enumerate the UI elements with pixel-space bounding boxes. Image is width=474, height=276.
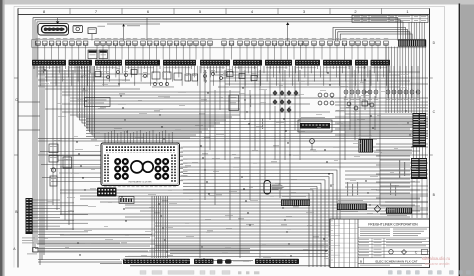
wire center V11: [254, 66, 256, 150]
fuse F1: [36, 38, 41, 45]
connector grd hatched C: [386, 208, 412, 216]
wire fuse F20 drop: [169, 45, 171, 59]
wire fuse F46 drop: [357, 45, 359, 59]
wire right H21: [380, 177, 428, 179]
sheet top edge line: [14, 5, 445, 7]
wire right lower H1: [345, 170, 410, 172]
wire cross H7: [86, 136, 428, 138]
wire bottom H5: [100, 201, 428, 203]
fuse F25: [201, 38, 206, 45]
wire cross H5: [86, 130, 428, 132]
wire label mid H8: [199, 112, 205, 115]
wire bottom H12: [155, 222, 400, 224]
fuse F8: [83, 38, 88, 45]
wire fuse F41 drop: [321, 45, 323, 59]
wire bottom H15: [155, 231, 428, 233]
fuse F13: [120, 38, 125, 45]
wire right H11: [345, 131, 428, 133]
title block revision column: [330, 219, 430, 268]
wire left bus V10: [72, 70, 74, 230]
svg-text:запчасти онлайн: запчасти онлайн: [425, 262, 450, 266]
wire mid H1: [62, 91, 240, 93]
wire mid H13: [38, 154, 428, 156]
wire mid H16: [60, 166, 420, 168]
wire band drop curtain: [34, 66, 390, 86]
wire bottom extra H1: [155, 245, 328, 247]
wire left bus V6: [56, 66, 58, 210]
wire label mid H10: [91, 138, 97, 141]
fuse F31: [252, 38, 257, 45]
wire bottom H2: [60, 192, 410, 194]
wire fuse F21 drop: [176, 45, 178, 59]
wire top loop outer: [33, 18, 398, 252]
fuse F40: [312, 38, 317, 45]
diode pack diamonds: [273, 90, 298, 112]
connector bulkhead C7: [233, 60, 262, 66]
PTDB outline: [32, 39, 427, 48]
wire mid H2: [62, 94, 300, 96]
label vertical splice 1: [347, 182, 348, 196]
wire center V18: [289, 106, 291, 200]
wire center V16: [279, 66, 281, 198]
connector bulkhead C5: [163, 60, 196, 66]
fuse F50: [384, 38, 389, 45]
wire fuse F50 drop: [385, 45, 387, 59]
frame zone tick marks top: [70, 8, 382, 14]
label under connector C2: [70, 66, 89, 69]
sensor right box 1: [362, 98, 368, 106]
label under connector C6: [201, 66, 225, 69]
gauge lamp circle cluster: [318, 93, 334, 105]
wire fuse F6 drop: [71, 45, 73, 59]
wire center V4: [214, 90, 216, 205]
wire bottom H25: [125, 256, 328, 258]
wire right lower H3: [345, 178, 410, 180]
label under connector C5: [164, 66, 190, 69]
fuse F24: [194, 38, 199, 45]
wire fuse F38 drop: [300, 45, 302, 59]
wire right H6: [335, 116, 428, 118]
wire mid H10: [38, 140, 358, 142]
wire right H28: [380, 205, 420, 207]
wire right H15: [380, 152, 412, 154]
wire sub-band H2: [38, 73, 150, 75]
wire fuse F8 drop: [85, 45, 87, 59]
wire right H9: [340, 125, 428, 127]
lamp L3: [356, 66, 360, 100]
fuse F3: [49, 38, 54, 45]
frame right line: [429, 8, 431, 267]
wire center V19: [294, 66, 296, 130]
frame side tick left B-C: [14, 154, 18, 156]
wire right H14: [376, 149, 412, 151]
lamp L10: [404, 66, 408, 100]
wire bottom H7: [125, 207, 428, 209]
fuse F19: [161, 38, 166, 45]
wire number labels texture: [40, 70, 425, 262]
wire bottom extra H5: [213, 260, 253, 262]
wire fuse F33 drop: [267, 45, 269, 59]
wire fuse F1 drop: [37, 45, 39, 59]
component small S12: [143, 72, 147, 78]
label FIREWALL PTDB: [127, 25, 140, 26]
wire bottom extra H6: [100, 263, 122, 265]
wire fuse F14 drop: [128, 45, 130, 59]
label vertical mid 3: [262, 118, 263, 129]
wire bottom H14: [38, 228, 415, 230]
lamp L7: [386, 66, 390, 100]
label lamp actw: [233, 260, 251, 261]
wire right lower H4: [345, 182, 410, 184]
wire fuse F34 drop: [274, 45, 276, 59]
wire corner bundle 5: [183, 183, 321, 267]
label vertical splice 5: [395, 185, 396, 196]
wire mid H12: [183, 150, 420, 152]
ground lug box: [27, 248, 38, 255]
wire label bottom H25: [167, 254, 173, 257]
wire label bottom H7: [293, 205, 299, 208]
wire nested bus L6: [90, 66, 203, 132]
fuse F9: [95, 38, 100, 45]
fuse F49: [376, 38, 381, 45]
relay K3: [185, 74, 191, 81]
wire label mid H14: [234, 156, 240, 159]
label under connector C1: [33, 66, 60, 69]
wire left bus V9: [68, 66, 70, 225]
wire bottom H1: [60, 189, 428, 191]
label splice pack: [399, 160, 400, 178]
fuse F12: [113, 38, 118, 45]
relay headlamp module: [298, 117, 332, 132]
wire right H22: [376, 181, 420, 183]
fuse F30: [245, 38, 250, 45]
connector dash hatched A: [281, 196, 310, 206]
wire bottom H11: [38, 219, 428, 221]
wire riser x287 with arrow: [286, 22, 289, 40]
wire label mid H4: [201, 98, 207, 101]
fuse F21: [174, 38, 179, 45]
fuse F11: [107, 38, 112, 45]
wire right V9: [379, 66, 381, 205]
wire fuse F25 drop: [202, 45, 204, 59]
wire bottom extra H3: [38, 259, 120, 261]
wire fuse F3 drop: [51, 45, 53, 59]
switch block left: [50, 176, 57, 186]
wire riser x147: [146, 18, 148, 41]
fuse F39: [304, 38, 309, 45]
wire fuse F39 drop: [305, 45, 307, 59]
wire hatched block drops: [386, 47, 425, 113]
wire right H5: [345, 113, 428, 115]
wire corner bundle 7: [183, 190, 313, 267]
fuse F20: [168, 38, 173, 45]
fuse F38: [298, 38, 303, 45]
connector bulkhead C12: [371, 60, 391, 66]
wire label mid H7: [154, 109, 160, 112]
wire center V12: [259, 70, 261, 258]
wire left margin stub 1: [18, 101, 40, 103]
wire fuse F30 drop: [246, 45, 248, 59]
wire left bus V2: [41, 66, 43, 260]
connector bulkhead C4: [125, 60, 160, 66]
wire mid H5: [62, 103, 310, 105]
connector bulkhead C2: [69, 60, 93, 66]
wire nested bus L3: [82, 66, 220, 123]
connector strip right lower: [411, 158, 427, 179]
label under connector C12: [372, 66, 388, 69]
frame main top line: [18, 13, 430, 15]
wire fuse F19 drop: [162, 45, 164, 59]
wire label mid H2: [119, 92, 125, 95]
fuse F41: [320, 38, 325, 45]
fuse F32: [259, 38, 264, 45]
label under connector C8: [266, 66, 288, 69]
wire strip-to-strip links: [414, 147, 426, 158]
wire cluster feed stubs: [105, 130, 172, 144]
fuse F4: [56, 38, 61, 45]
wire right V3: [349, 66, 351, 130]
title block data table: [358, 238, 430, 258]
fuse F36: [285, 38, 290, 45]
fuse F42: [328, 38, 333, 45]
component small S11: [106, 73, 110, 79]
fuse F48: [370, 38, 375, 45]
wire label bottom H13: [281, 223, 287, 226]
wire center V9: [244, 70, 246, 120]
wire right H7: [350, 119, 428, 121]
wire top right bundle: [335, 30, 407, 41]
fuse F34: [272, 38, 277, 45]
fuse F29: [238, 38, 243, 45]
wire label bottom H17: [313, 235, 319, 238]
lamp L2: [350, 66, 354, 100]
wire center V20: [299, 70, 301, 160]
connector strip right upper: [413, 113, 427, 147]
wire bottom H6: [125, 204, 415, 206]
title block header: [358, 222, 430, 236]
window top grey strip: [0, 0, 474, 5]
wire right H16: [376, 155, 410, 157]
connector A/C hatched: [358, 136, 373, 153]
wire mid H15: [183, 162, 428, 164]
wire fuse F7 drop: [78, 45, 80, 59]
wire left margin stub 3: [18, 129, 40, 131]
component small S5: [239, 71, 245, 78]
wire nested bus L5: [87, 66, 208, 129]
instrument cluster body: [101, 143, 180, 186]
wire left bus V5: [52, 66, 54, 205]
wire label bottom H11: [238, 217, 244, 220]
wire right H27: [385, 201, 428, 203]
wire label mid H6: [100, 106, 106, 109]
component small S6: [251, 73, 257, 80]
svg-text:ELEC SCHEM MAIN FLX CAT: ELEC SCHEM MAIN FLX CAT: [375, 259, 417, 263]
wire left low H2: [38, 237, 150, 239]
wire right H23: [380, 185, 428, 187]
svg-text:C: C: [415, 250, 418, 254]
wire fuse F9 drop: [96, 45, 98, 59]
wire bottom H4: [80, 198, 420, 200]
wire mid H7: [62, 111, 330, 113]
wire fuse F24 drop: [195, 45, 197, 59]
component small S2: [211, 70, 215, 76]
wire center V6: [224, 70, 226, 160]
lamp L11: [410, 66, 414, 100]
wire fuse F22 drop: [182, 45, 184, 59]
wire fuse F13 drop: [121, 45, 123, 59]
connector bulkhead C8: [265, 60, 292, 66]
label vertical splice 3: [357, 182, 358, 195]
wire bottom H23: [33, 251, 250, 253]
wire top loop inner: [37, 22, 403, 244]
relay R-A block: [88, 50, 97, 59]
wire corner bundle 2: [183, 173, 333, 267]
frame zone numbers 8-1: [43, 9, 410, 14]
fuse F45: [350, 38, 355, 45]
wire center V2: [204, 70, 206, 200]
fuse F26: [208, 38, 213, 45]
wire corner bundle 6: [183, 187, 317, 268]
fuse F22: [181, 38, 186, 45]
svg-text:B: B: [360, 259, 362, 263]
wire fuse F42 drop: [329, 45, 331, 59]
wire label bottom H1: [90, 187, 96, 190]
wire sub-band H4: [38, 79, 130, 81]
wire right V2: [344, 96, 346, 160]
wire center V5: [219, 66, 221, 110]
wire fuse F26 drop: [209, 45, 211, 59]
wire bottom H18: [38, 240, 328, 242]
wire right H25: [380, 193, 428, 195]
wire label mid H12: [310, 148, 316, 151]
wire label bottom H23: [149, 249, 155, 252]
wire lower strip drops: [412, 179, 427, 218]
connector small below data link: [119, 197, 134, 204]
wire label bottom H19: [121, 241, 127, 244]
wire fuse F49 drop: [377, 45, 379, 59]
connector data link: [97, 188, 117, 197]
wire right V1: [339, 66, 341, 230]
wire bottom H24: [170, 253, 328, 255]
wire sub-band H9: [215, 74, 400, 76]
wire top right bundle: [340, 34, 412, 41]
wire cross H3: [86, 124, 428, 126]
sensor right circle 2: [353, 106, 358, 112]
junction firewall node: [122, 24, 125, 27]
component small S4: [227, 69, 233, 76]
wire left bus V3: [43, 66, 45, 255]
wire sub-band H10: [222, 77, 428, 79]
window left dark edge strip: [0, 0, 3, 276]
wire right H24: [376, 189, 420, 191]
wire bottom H10: [125, 216, 410, 218]
wire cross H6: [86, 133, 428, 135]
wire fuse F27 drop: [223, 45, 225, 59]
frame left line: [17, 8, 19, 267]
svg-text:FREIGHTLINER CORPORATION: FREIGHTLINER CORPORATION: [368, 222, 418, 226]
label vertical mid 2: [250, 95, 251, 107]
wire label bottom H21: [225, 246, 231, 249]
fuse F5: [63, 38, 68, 45]
wire left low H1: [38, 234, 152, 236]
module block left: [63, 157, 72, 168]
wire right H26: [376, 197, 420, 199]
frame side tick right C-D: [430, 77, 433, 79]
wire right V8: [374, 96, 376, 130]
module PNDL bulkhead block: [38, 18, 69, 35]
frame outer top line: [18, 7, 430, 9]
frame side tick right B-C: [430, 154, 433, 156]
wire top loop middle: [35, 20, 400, 248]
wire fuse F15 drop: [134, 45, 136, 59]
label A/C RELAY: [98, 25, 106, 28]
connector bulkhead C10: [323, 60, 352, 66]
fuse F27: [222, 38, 227, 45]
wire mid H4: [70, 100, 240, 102]
wire center V13: [264, 90, 266, 181]
label electronic ground 3: [22, 242, 34, 245]
connector bulkhead C3: [95, 60, 122, 66]
wire bottom H20: [155, 246, 328, 248]
wire fuse F32 drop: [260, 45, 262, 59]
connector band powertrain: [123, 259, 190, 264]
wire right H3: [340, 107, 428, 109]
fuse F2: [43, 38, 48, 45]
fuse F28: [229, 38, 234, 45]
wire mid H9: [38, 138, 428, 140]
connector band steering wheel: [255, 259, 299, 264]
wire right V5: [359, 96, 361, 139]
wire center V8: [239, 66, 241, 258]
frame side tick left C-D: [14, 77, 18, 79]
wire mid H6: [45, 108, 240, 110]
icon pair bottom: [217, 259, 232, 263]
fuse F15: [133, 38, 138, 45]
sensor right circle 3: [369, 103, 374, 109]
connector pin strip left: [26, 198, 33, 234]
wire top right bundle: [333, 27, 406, 40]
wire corner bundle 3: [183, 177, 329, 267]
wire right V6: [364, 66, 366, 110]
fuse F23: [188, 38, 193, 45]
wire fuse F11 drop: [108, 45, 110, 59]
lamp L12: [416, 66, 420, 100]
wire sub-band H5: [50, 82, 160, 84]
component small S1: [203, 72, 207, 78]
wire fuse F18 drop: [155, 45, 157, 59]
wire cross H1: [86, 118, 428, 120]
label vertical splice 4: [390, 183, 391, 195]
fuse F33: [266, 38, 271, 45]
fuse F46: [356, 38, 361, 45]
wire bottom extra H4: [38, 261, 122, 263]
wire sub-band H8: [210, 71, 420, 73]
component small S10: [95, 69, 101, 76]
wire left margin stub 2: [18, 115, 40, 117]
desktop grey area right: [460, 5, 474, 276]
lamp L5: [368, 66, 372, 100]
wire right H8: [335, 122, 428, 124]
node diamond grd: [374, 206, 380, 213]
wire cluster left feeds: [40, 152, 101, 182]
sensor circle left: [51, 168, 55, 172]
wire label mid H5: [230, 101, 236, 104]
taskbar right icons: [388, 270, 471, 274]
wire sub-band H13: [218, 86, 400, 88]
wire sub-band H12: [225, 83, 428, 85]
wire cross H2: [86, 121, 428, 123]
wire junction dots: [44, 69, 414, 259]
